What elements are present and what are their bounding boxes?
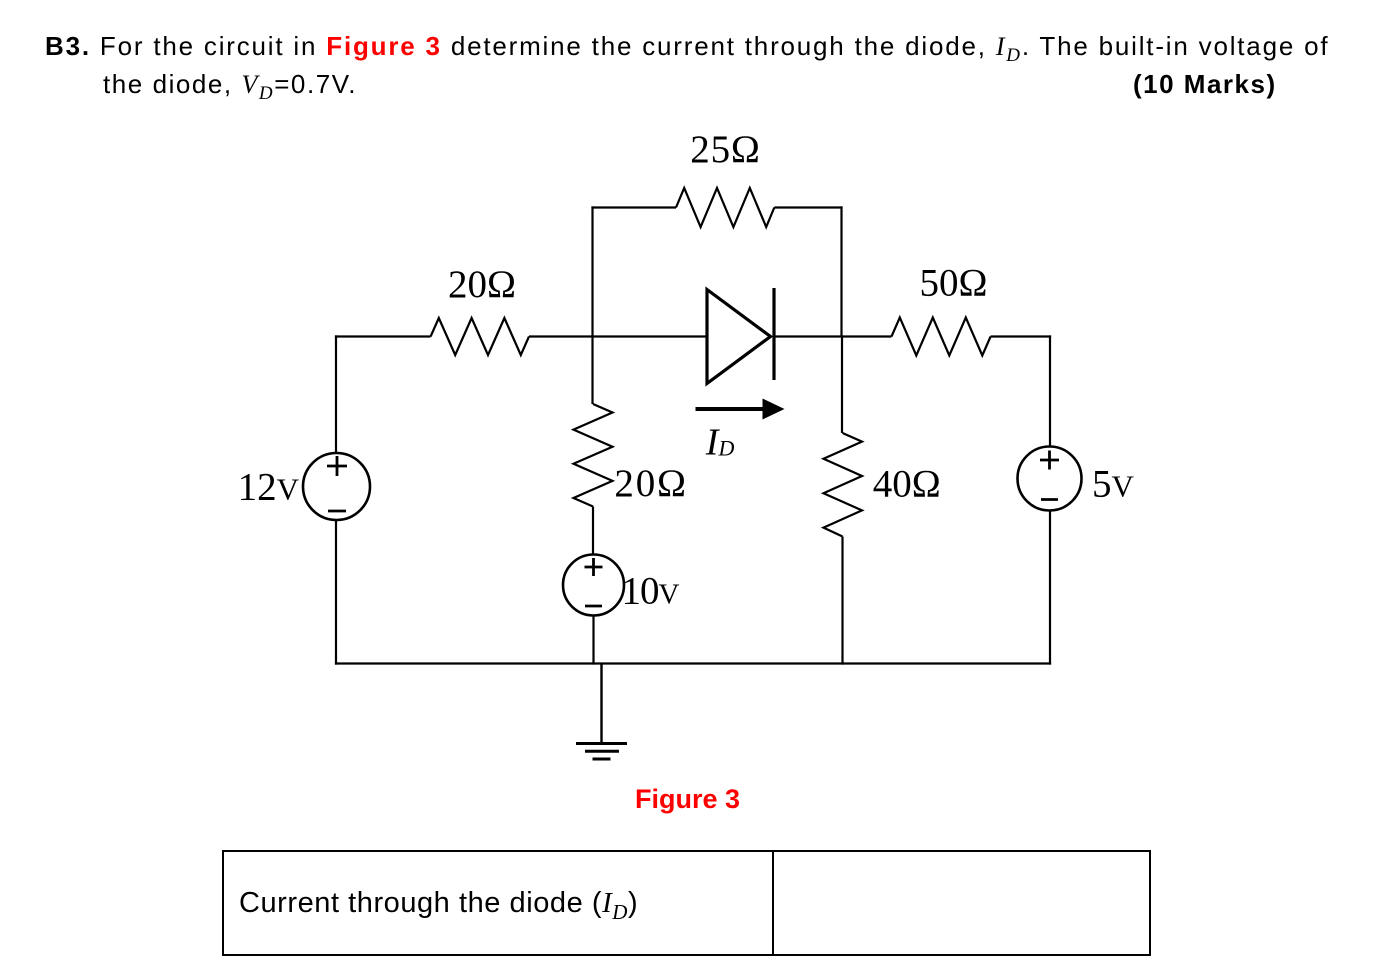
- wire: top branch right vertical: [840, 206, 842, 336]
- resistor R4 20ohm vertical: [574, 404, 613, 507]
- wire: main rail left segment: [335, 335, 431, 337]
- marks: [1133, 69, 1277, 100]
- wire: top branch left vertical: [591, 206, 593, 336]
- svg-text:5V: 5V: [1092, 463, 1135, 506]
- wire: bottom rail: [335, 662, 1051, 664]
- wire: R5 to bottom rail: [841, 537, 843, 665]
- wire: main rail from R1 to diode anode: [529, 335, 707, 337]
- svg-text:12V: 12V: [238, 465, 300, 508]
- ground: [576, 664, 627, 760]
- wire: main rail right segment to corner: [991, 335, 1052, 337]
- voltage source V3 5V: [1018, 447, 1082, 511]
- svg-text:20Ω: 20Ω: [448, 263, 516, 306]
- current arrow ID: [696, 399, 785, 420]
- resistor R2 25ohm top: [676, 188, 774, 227]
- table text: [239, 887, 638, 925]
- svg-text:25Ω: 25Ω: [690, 128, 760, 171]
- resistor R3 50ohm: [892, 318, 991, 356]
- wire: branch node B down to R5: [841, 335, 843, 433]
- table divider: [772, 850, 774, 955]
- voltage source V1 12V: [303, 453, 370, 520]
- header line 2: [103, 69, 357, 105]
- svg-text:20Ω: 20Ω: [614, 462, 687, 505]
- wire: R4 to 10V source: [592, 507, 594, 555]
- answer table: [222, 850, 1151, 956]
- wire: right branch corner down to 5V source: [1049, 335, 1051, 446]
- wire: top branch right horizontal: [774, 206, 842, 208]
- resistor R5 40ohm vertical: [824, 433, 863, 537]
- wire: main rail diode cathode to node B: [774, 335, 892, 337]
- caption Figure 3: [635, 784, 740, 815]
- voltage source V2 10V: [563, 555, 624, 616]
- header line 1: [45, 31, 1329, 67]
- wire: 5V source to bottom rail: [1049, 511, 1051, 665]
- wire: 10V source to bottom rail: [592, 616, 594, 665]
- wire: middle branch node A to R4: [591, 335, 593, 404]
- wire: left branch top (main node A to 12V source): [335, 335, 337, 453]
- svg-text:10V: 10V: [622, 570, 680, 613]
- resistor R1 20ohm horizontal: [431, 318, 529, 355]
- svg-text:40Ω: 40Ω: [873, 463, 941, 506]
- svg-text:50Ω: 50Ω: [920, 262, 988, 305]
- diode D1: [707, 288, 774, 384]
- wire: top branch left horizontal: [591, 206, 676, 208]
- wire: left branch bottom (12V source to bottom rail): [335, 520, 337, 665]
- svg-text:ID: ID: [705, 421, 735, 463]
